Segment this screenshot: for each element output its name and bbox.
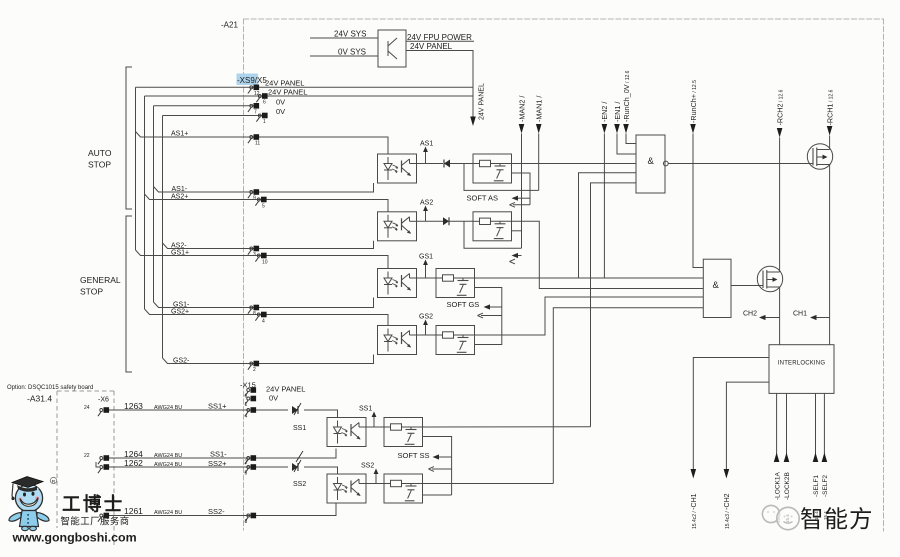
- wire SS1 out long: [423, 426, 591, 428]
- board A21 dashed boundary top: [244, 18, 884, 20]
- wire EN1 vertical: [617, 134, 636, 155]
- wire SOFT SS1 port2: [423, 437, 452, 496]
- bracket AUTO STOP: [126, 67, 132, 209]
- optocoupler AS1: [378, 154, 417, 183]
- svg-text:智能方: 智能方: [800, 506, 874, 532]
- wire bundle vertical 0V#2: [162, 116, 164, 359]
- wire AS2 out: [417, 220, 444, 222]
- wire SS1 up to AND1: [591, 183, 637, 427]
- svg-text:24V FPU POWER: 24V FPU POWER: [407, 33, 472, 42]
- optocoupler SS2: [327, 474, 366, 503]
- wire RunCh+ vertical: [693, 134, 703, 268]
- wire LOCK2B: [786, 393, 788, 460]
- terminal X15 SS1- pin 2: [245, 455, 256, 464]
- wire SOFT AS2 loop: [464, 221, 522, 248]
- wire MOSFET1 source to interlocking: [829, 165, 831, 345]
- svg-text:SS1: SS1: [293, 425, 306, 432]
- arrow feedback SS1 b: [429, 467, 452, 472]
- svg-text:AS1-: AS1-: [172, 186, 188, 193]
- wire SS2 out long: [423, 483, 554, 485]
- arrow CH1 output: [691, 469, 697, 479]
- terminal AS1- pin 9: [248, 189, 259, 198]
- wire GS2 out to AND2: [475, 297, 704, 335]
- optocoupler SS1: [327, 418, 366, 447]
- wire SOFT SS2 port2: [423, 494, 452, 496]
- wire GS1+: [136, 250, 389, 269]
- wire 24V PANEL row 1: [136, 86, 474, 88]
- terminal X59 pin 1: [256, 113, 267, 122]
- svg-text:-X6: -X6: [98, 397, 109, 404]
- svg-text:6: 6: [263, 100, 266, 106]
- bracket GENERAL STOP: [126, 216, 132, 372]
- wire 0V SYS: [310, 55, 378, 57]
- svg-text:AWG24 BU: AWG24 BU: [154, 453, 182, 459]
- arrow MAN1: [536, 124, 542, 134]
- svg-text:-LOCK1A: -LOCK1A: [774, 472, 781, 500]
- svg-text:SOFT AS: SOFT AS: [467, 194, 499, 203]
- arrow RCH1: [827, 126, 833, 136]
- DC converter U1: [378, 30, 406, 67]
- wire GS2+: [145, 309, 389, 326]
- arrow RunCh+: [690, 124, 696, 134]
- svg-text:24V PANEL: 24V PANEL: [410, 42, 453, 51]
- wire 24V SYS: [310, 37, 378, 39]
- filter SOFT AS ch2: [473, 212, 512, 241]
- arrow RunCh_0V: [623, 124, 629, 134]
- wire SOFT AS1 port2: [512, 173, 531, 205]
- wire GS1 out to AND gates: [475, 277, 704, 279]
- svg-text:&: &: [713, 280, 720, 291]
- arrow SELF2: [822, 453, 828, 463]
- svg-text:SS1: SS1: [359, 406, 372, 413]
- svg-text:AWG24 BU: AWG24 BU: [154, 510, 182, 516]
- svg-text:24V PANEL: 24V PANEL: [479, 83, 486, 120]
- svg-text:1: 1: [263, 119, 266, 125]
- wire 0V row 2: [163, 115, 263, 117]
- arrow RCH2: [777, 128, 783, 138]
- AND gate U2: [636, 135, 668, 193]
- svg-text:7: 7: [254, 110, 257, 116]
- terminal X6 pin 22: [98, 455, 109, 464]
- arrow EN2: [602, 124, 608, 134]
- logo gongboshi mascot: [9, 477, 49, 531]
- wire GS1-: [154, 298, 374, 308]
- svg-text:工博士: 工博士: [62, 494, 125, 515]
- wire GS2 out: [417, 334, 437, 336]
- terminal X6 SS2+ pin 23: [96, 462, 109, 473]
- terminal X59 pin 7: [248, 103, 259, 112]
- wire SS2+: [107, 466, 288, 468]
- wire SS1+: [107, 409, 288, 411]
- wire SOFT AS2 port2: [512, 230, 522, 232]
- wire LOCK1A: [776, 393, 778, 460]
- svg-text:SS2: SS2: [293, 481, 306, 488]
- terminal X6 SS2- pin 21: [98, 513, 109, 522]
- svg-text:SOFT GS: SOFT GS: [447, 300, 480, 309]
- svg-text:24V PANEL: 24V PANEL: [265, 79, 304, 88]
- svg-text:24V PANEL: 24V PANEL: [268, 88, 307, 97]
- svg-text:9: 9: [253, 196, 256, 202]
- svg-text:0V: 0V: [276, 97, 285, 106]
- svg-text:11: 11: [255, 141, 260, 147]
- svg-text:SS2-: SS2-: [208, 507, 225, 516]
- wire RunCh_0V vertical: [626, 134, 636, 144]
- arrow feedback GS b: [478, 313, 502, 318]
- wire GS1 branch up to AND1: [579, 173, 637, 278]
- terminal GS2- pin 2: [248, 361, 259, 370]
- svg-text:24V SYS: 24V SYS: [334, 30, 366, 39]
- terminal GS1+ pin 10: [255, 253, 266, 262]
- wire CH2 output left: [726, 382, 769, 470]
- svg-text:4: 4: [245, 414, 248, 420]
- svg-text:INTERLOCKING: INTERLOCKING: [778, 361, 826, 367]
- board A31.4 dashed box: [57, 391, 114, 545]
- arrow feedback AS2 b: [510, 259, 516, 264]
- svg-text:SS1-: SS1-: [210, 450, 227, 459]
- wire bundle vertical 0V#1: [153, 106, 155, 302]
- wire GS1 out: [417, 277, 437, 279]
- arrow feedback SS1 a: [433, 454, 452, 459]
- wire bundle vertical 24V#1: [135, 87, 137, 250]
- arrow feedback AS2 a: [512, 253, 522, 258]
- wire SS1 opto out: [366, 426, 384, 428]
- MOSFET Q1: [807, 144, 832, 169]
- svg-text:4: 4: [262, 319, 265, 325]
- svg-text:SOFT SS: SOFT SS: [398, 451, 430, 460]
- block INTERLOCKING: [769, 345, 834, 394]
- svg-text:STOP: STOP: [88, 160, 111, 170]
- svg-text:AS1: AS1: [420, 141, 433, 148]
- wire bundle vertical 24V#2: [144, 96, 146, 309]
- wire 0V row 1: [154, 105, 254, 107]
- wire AS1+: [136, 132, 389, 155]
- svg-text:5: 5: [262, 204, 265, 210]
- highlight on -XS9: [237, 74, 259, 86]
- arrow LOCK2B: [784, 453, 790, 463]
- arrow CH2 output: [724, 469, 730, 479]
- svg-text:24: 24: [84, 405, 90, 411]
- svg-text:STOP: STOP: [80, 287, 103, 297]
- arrow 24V PANEL down: [470, 117, 476, 127]
- filter SOFT SS ch1: [384, 418, 423, 447]
- wire MOSFET2 source to interlocking: [779, 287, 781, 345]
- terminal X59 pin 6: [256, 93, 267, 102]
- arrow feedback GS a: [484, 304, 502, 309]
- terminal AS1+ pin 11: [248, 134, 259, 143]
- svg-text:AWG24 BU: AWG24 BU: [154, 462, 182, 468]
- svg-text:5: 5: [245, 471, 248, 477]
- diode AS1: [444, 160, 450, 168]
- svg-text:-MAN1 /: -MAN1 /: [535, 96, 544, 122]
- wire MAN2 vertical: [521, 134, 523, 249]
- board A21 dashed boundary left / connector X15 line: [243, 19, 245, 530]
- wire AS1-: [154, 183, 374, 192]
- svg-text:-EN2 /: -EN2 /: [600, 102, 609, 122]
- terminal X15 0V pin 1: [245, 396, 256, 405]
- svg-text:GS2: GS2: [419, 314, 433, 321]
- svg-text:&: &: [648, 156, 655, 167]
- terminal AS2+ pin 5: [255, 197, 266, 206]
- arrow feedback AS1 b: [510, 202, 531, 207]
- terminal X15 SS1+ pin 4: [245, 407, 256, 416]
- svg-text:AS2+: AS2+: [171, 193, 188, 200]
- svg-text:1263: 1263: [124, 401, 143, 411]
- logo registered mark: [50, 477, 56, 485]
- svg-text:AS2-: AS2-: [171, 242, 187, 249]
- wire EN2 vertical: [603, 134, 605, 279]
- svg-text:GS1: GS1: [419, 254, 433, 261]
- svg-text:R: R: [52, 479, 56, 485]
- filter SOFT GS ch1: [436, 269, 475, 298]
- svg-text:智能工厂服务商: 智能工厂服务商: [61, 516, 130, 527]
- arrow EN1: [614, 124, 620, 134]
- wire AS2+: [145, 194, 389, 212]
- wire AND1 output to MOSFET1 gate: [668, 163, 813, 165]
- svg-text:15.4c2 / -CH1: 15.4c2 / -CH1: [691, 493, 698, 529]
- svg-text:-MAN2 /: -MAN2 /: [517, 96, 526, 122]
- wire SOFT AS1 out to AND1: [512, 163, 637, 165]
- diode AS2: [443, 217, 449, 225]
- wire MAN1 vertical: [538, 134, 540, 191]
- wire CH1 output left: [693, 358, 769, 471]
- svg-text:3: 3: [245, 519, 248, 525]
- svg-text:-SELF1: -SELF1: [813, 475, 820, 497]
- svg-text:10: 10: [262, 260, 268, 266]
- svg-text:Option: DSQC1015 safety board: Option: DSQC1015 safety board: [7, 385, 93, 391]
- svg-text:GS2-: GS2-: [173, 357, 190, 364]
- slash mark SS1-: [296, 451, 303, 462]
- svg-text:GS1-: GS1-: [173, 301, 190, 308]
- wire AS1 out: [417, 163, 444, 165]
- svg-text:SS2: SS2: [361, 463, 374, 470]
- wire SOFT AS1 loop: [464, 164, 539, 191]
- svg-text:www.gongboshi.com: www.gongboshi.com: [12, 531, 137, 545]
- svg-text:2: 2: [253, 367, 256, 373]
- svg-text:SS1+: SS1+: [208, 402, 227, 411]
- terminal X15 24V PANEL pin 6: [245, 387, 256, 396]
- wire RCH1 to MOSFET1 drain: [829, 136, 831, 150]
- svg-text:CH2: CH2: [743, 311, 757, 318]
- svg-text:AWG24 BU: AWG24 BU: [154, 405, 182, 411]
- svg-text:15.4c3 / -CH2: 15.4c3 / -CH2: [724, 493, 731, 529]
- svg-text:GS2+: GS2+: [171, 308, 189, 315]
- svg-text:1: 1: [245, 402, 248, 408]
- svg-text:-A21: -A21: [221, 21, 238, 30]
- label CH1 with arrow: [793, 311, 830, 321]
- arrow SELF1: [813, 453, 819, 463]
- svg-text:AS1+: AS1+: [171, 131, 188, 138]
- svg-text:22: 22: [84, 453, 90, 459]
- terminal GS1- pin 8: [248, 305, 259, 314]
- wire SS2 opto out: [366, 483, 384, 485]
- optocoupler GS2: [378, 326, 417, 355]
- label CH2 with arrow: [743, 311, 780, 321]
- terminal AS2- pin 3: [248, 246, 259, 255]
- wire AND2 output to MOSFET2 gate: [731, 285, 763, 287]
- svg-text:2: 2: [245, 460, 248, 466]
- MOSFET Q2: [757, 266, 782, 291]
- wire SELF1: [815, 393, 817, 460]
- svg-text:AUTO: AUTO: [88, 148, 112, 158]
- svg-text:CH1: CH1: [793, 311, 807, 318]
- filter SOFT SS ch2: [384, 474, 423, 503]
- svg-text:0V: 0V: [276, 107, 285, 116]
- board A21 dashed boundary right: [883, 19, 885, 531]
- AND gate U3: [703, 259, 731, 317]
- terminal X59 pin 12: [248, 85, 259, 94]
- svg-text:GS1+: GS1+: [171, 249, 189, 256]
- svg-text:0V: 0V: [269, 394, 278, 403]
- svg-text:1262: 1262: [124, 458, 143, 468]
- watermark icon: [762, 505, 799, 529]
- wire SOFT GS1 port2 to GS2 port2: [475, 288, 502, 345]
- svg-text:-LOCK2B: -LOCK2B: [784, 472, 791, 500]
- svg-text:-EN1 /: -EN1 /: [613, 102, 622, 122]
- svg-text:AS2: AS2: [420, 200, 433, 207]
- svg-text:-A31.4: -A31.4: [27, 394, 52, 404]
- wire 24V PANEL row 2: [145, 95, 474, 97]
- svg-text:GENERAL: GENERAL: [80, 275, 121, 285]
- terminal X15 SS2+ pin 5: [245, 464, 256, 473]
- svg-text:0V SYS: 0V SYS: [338, 48, 366, 57]
- wire 24V FPU POWER: [406, 40, 474, 42]
- wire AS2 out to AND2: [512, 221, 704, 288]
- wire SELF2: [823, 393, 825, 460]
- terminal X15 SS2- pin 3: [245, 513, 256, 522]
- terminal X6 pin 24: [98, 407, 109, 416]
- wire SS2 up to AND2: [553, 308, 703, 484]
- terminal GS2+ pin 4: [255, 312, 266, 321]
- svg-text:-XS9/X5: -XS9/X5: [237, 76, 267, 85]
- svg-text:24V PANEL: 24V PANEL: [266, 385, 305, 394]
- arrow feedback AS1 a: [512, 196, 531, 201]
- wire SS2-: [107, 503, 336, 516]
- svg-text:1261: 1261: [124, 506, 143, 516]
- optocoupler GS1: [378, 269, 417, 298]
- filter SOFT AS ch1: [473, 154, 512, 183]
- wire AS2-: [163, 241, 374, 249]
- filter SOFT GS ch2: [436, 326, 475, 355]
- diode SS2: [292, 460, 301, 472]
- svg-text:-SELF2: -SELF2: [822, 475, 829, 497]
- wire RCH2 to MOSFET2 drain: [779, 138, 781, 273]
- optocoupler AS2: [378, 212, 417, 241]
- wire 24V PANEL output: [406, 51, 473, 119]
- arrow MAN2: [519, 124, 525, 134]
- svg-text:SS2+: SS2+: [208, 459, 227, 468]
- wire SS1-: [107, 449, 336, 459]
- wire GS2-: [163, 355, 374, 364]
- diode SS1: [292, 403, 301, 415]
- arrow LOCK1A: [774, 453, 780, 463]
